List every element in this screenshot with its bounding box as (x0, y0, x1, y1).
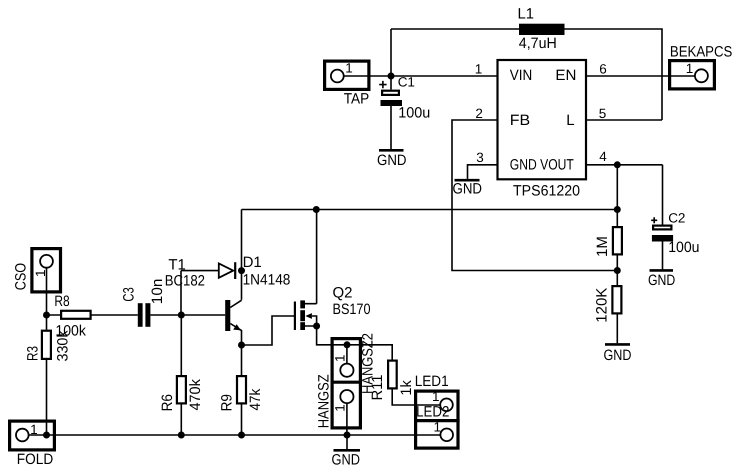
svg-text:1: 1 (333, 404, 348, 412)
connector FOLD (10, 421, 55, 450)
connector TAP (325, 61, 369, 89)
connector CSO (32, 249, 61, 292)
svg-text:120K: 120K (594, 288, 611, 323)
svg-text:10n: 10n (149, 279, 166, 305)
wire drop from top rail to TAP/C1 node (390, 29, 392, 76)
svg-text:330k: 330k (54, 330, 71, 361)
ground GND of C2 (648, 270, 675, 289)
ground GND of C1 (377, 150, 407, 169)
svg-text:C3: C3 (121, 287, 138, 301)
ground GND of pin 3 (453, 180, 483, 197)
svg-text:GND: GND (604, 347, 632, 364)
svg-text:R9: R9 (219, 394, 236, 411)
resistor R6 (177, 315, 186, 435)
resistor 1M body (613, 227, 622, 254)
capacitor C3 (138, 303, 225, 327)
connector HANGSZ2 top cell (331, 339, 363, 428)
svg-text:TPS61220: TPS61220 (513, 183, 580, 200)
svg-text:BS170: BS170 (333, 301, 371, 318)
wire rail down to D1 cathode and T1 collector (241, 210, 243, 300)
junction VIN node at C1 (388, 73, 395, 80)
connector BEKAPCS (670, 61, 715, 89)
op-amp U1 TPS61220 box (498, 60, 587, 179)
svg-text:GND: GND (453, 181, 483, 198)
svg-text:C2: C2 (668, 211, 685, 226)
wire pin 2 FB to divider midpoint (452, 120, 617, 271)
svg-text:100u: 100u (398, 104, 430, 121)
svg-text:GND: GND (332, 452, 361, 469)
junction Q2 source/bulk (313, 323, 320, 330)
svg-text:Q2: Q2 (333, 285, 353, 302)
wire CSO to base node (46, 268, 48, 315)
resistor R11 (347, 345, 440, 405)
junction HANGSZ bottom / GND (344, 432, 351, 439)
svg-text:1: 1 (333, 354, 348, 362)
svg-text:1k: 1k (398, 380, 415, 396)
capacitor C1 (379, 76, 402, 149)
wire 120K to ground (616, 315, 618, 344)
svg-text:R3: R3 (25, 346, 42, 361)
inductor L1 body (519, 24, 565, 35)
svg-text:C1: C1 (398, 75, 415, 90)
connector LED2 bottom cell (440, 429, 453, 442)
svg-text:T1: T1 (168, 257, 186, 274)
svg-text:5: 5 (599, 106, 607, 121)
svg-text:L: L (566, 112, 574, 129)
svg-text:CSO: CSO (13, 263, 30, 290)
resistor 120K body (612, 286, 621, 313)
svg-text:R8: R8 (54, 293, 69, 310)
wire pin 5 L (586, 119, 662, 121)
resistor R8 (47, 311, 138, 319)
svg-text:4,7uH: 4,7uH (519, 35, 557, 52)
ground GND of 120K (604, 344, 632, 363)
svg-text:6: 6 (599, 62, 607, 77)
wire pin 3 to ground (468, 165, 498, 179)
svg-text:1M: 1M (594, 236, 611, 257)
ground GND of HANGSZ (332, 435, 361, 469)
junction R9 bottom (238, 432, 245, 439)
svg-text:FOLD: FOLD (17, 451, 54, 468)
resistor R9 (237, 345, 246, 435)
svg-text:HANGSZ: HANGSZ (315, 374, 332, 428)
diode D1 (181, 262, 235, 315)
svg-text:GND: GND (377, 152, 407, 169)
capacitor C2 (651, 165, 673, 269)
svg-text:BEKAPCS: BEKAPCS (670, 44, 733, 61)
junction FB divider midpoint (614, 267, 621, 274)
wire TAP to VIN pin 1 (344, 75, 498, 77)
svg-text:L1: L1 (518, 6, 535, 23)
svg-text:1: 1 (432, 389, 440, 404)
junction FOLD/R3 node (43, 432, 50, 439)
wire VOUT horizontal rail to D1/Q2 (242, 209, 618, 211)
svg-text:1N4148: 1N4148 (243, 272, 291, 289)
junction D1 cathode node (238, 267, 245, 274)
junction VOUT at pin 4 (614, 161, 621, 168)
svg-text:GND: GND (648, 272, 675, 289)
svg-text:470k: 470k (187, 379, 204, 411)
wire pin 6 EN to BEKAPCS (586, 75, 695, 77)
junction R6 bottom (178, 432, 185, 439)
svg-text:4: 4 (599, 149, 607, 164)
svg-text:EN: EN (555, 67, 576, 84)
svg-text:TAP: TAP (344, 90, 370, 107)
svg-text:R11: R11 (369, 375, 386, 401)
junction VOUT rail tap (614, 206, 621, 213)
svg-text:3: 3 (476, 150, 484, 165)
svg-text:FB: FB (510, 112, 530, 129)
wire 1M to 120K (616, 256, 618, 286)
connector LED1 top cell (414, 391, 460, 448)
svg-text:2: 2 (475, 106, 483, 121)
svg-text:BC182: BC182 (165, 273, 205, 290)
svg-text:LED1: LED1 (415, 373, 449, 390)
connector HANGSZ bottom cell (340, 390, 353, 435)
svg-text:1: 1 (30, 422, 38, 437)
wire L1 to pin5 drop: top rail right segment (565, 29, 663, 120)
svg-text:1: 1 (434, 420, 442, 435)
svg-text:D1: D1 (243, 254, 262, 271)
svg-text:GND VOUT: GND VOUT (510, 157, 574, 174)
wire pin 4 VOUT (586, 164, 663, 166)
junction T1 emitter node (238, 342, 245, 349)
svg-text:100u: 100u (668, 239, 699, 256)
svg-text:LED2: LED2 (416, 403, 449, 420)
svg-text:VIN: VIN (510, 67, 533, 84)
resistor R3 (42, 315, 51, 435)
svg-text:1: 1 (345, 60, 353, 75)
transistor Q2 (295, 210, 347, 345)
svg-text:1: 1 (686, 61, 694, 76)
junction base node at R6/D1 (178, 312, 185, 319)
wire ground rail bottom (29, 434, 441, 436)
wire VIN net: top rail left segment (391, 28, 519, 30)
junction base divider node (43, 312, 50, 319)
svg-text:R6: R6 (159, 394, 176, 411)
svg-text:47k: 47k (247, 388, 264, 410)
transistor T1 (225, 300, 241, 345)
junction HANGSZ2 pin node (344, 341, 351, 348)
junction rail at Q2 drain (313, 206, 320, 213)
wire emitter node to Q2 gate (242, 316, 295, 345)
svg-text:1: 1 (475, 62, 483, 77)
wire VOUT vertical to 1M (616, 165, 618, 226)
